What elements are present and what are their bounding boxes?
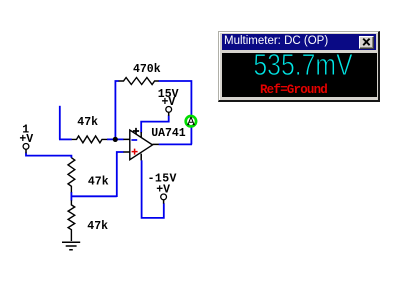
wire: node junction up to 470k left end <box>115 81 118 139</box>
wire: R3/R4 junction to op-amp non-inverting input <box>71 152 123 201</box>
close button <box>359 36 374 49</box>
svg-text:47k: 47k <box>88 176 109 189</box>
probe A (measurement point) <box>186 116 196 126</box>
svg-text:47k: 47k <box>77 116 98 129</box>
multimeter window <box>218 31 380 102</box>
wire: op-amp bottom to -15V supply <box>141 160 164 219</box>
wire: +15V supply to op-amp top <box>141 115 169 132</box>
wire: source V1 to R3 top <box>26 153 71 158</box>
reference label <box>217 83 371 97</box>
display area <box>222 53 377 97</box>
wire: 470k right end to output node (through probe A) <box>158 81 191 144</box>
source V1 (+V, node 1) <box>19 124 33 154</box>
wire: op-amp output to right vertical <box>159 143 192 145</box>
resistor R3 47k (vertical, upper) <box>68 158 109 193</box>
node junction dot <box>113 137 118 142</box>
op-amp U1 UA741 <box>123 127 185 160</box>
reading value <box>241 47 364 83</box>
source +15V supply <box>158 88 179 116</box>
resistor R2 47k (horizontal, to inverting input) <box>72 116 108 143</box>
wire: R2 right lead to node A junction and to op-amp inverting input <box>107 138 124 140</box>
svg-text:+V: +V <box>162 96 176 109</box>
wire: left dangling stub <box>59 106 61 140</box>
source -15V supply <box>148 173 177 204</box>
resistor R4 47k (vertical, lower) <box>68 200 108 241</box>
svg-text:470k: 470k <box>133 63 161 76</box>
resistor R1 470k <box>119 63 161 85</box>
svg-text:UA741: UA741 <box>151 127 186 140</box>
svg-text:+V: +V <box>19 133 33 146</box>
wire: stub to R2 left lead <box>59 138 72 140</box>
ground <box>62 242 80 250</box>
svg-text:+V: +V <box>156 183 170 196</box>
svg-text:47k: 47k <box>87 220 108 233</box>
title bar <box>222 34 376 50</box>
